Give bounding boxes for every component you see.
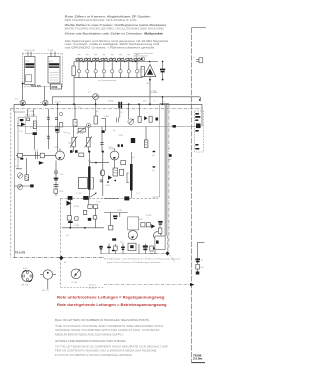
svg-text:C204: C204 (104, 116, 110, 118)
svg-text:mit GRUNDIG Univers.-/ Röhrenv: mit GRUNDIG Univers.-/ Röhrenvoltmeter g… (65, 45, 155, 49)
svg-text:2.0.8m: 2.0.8m (193, 357, 203, 361)
svg-text:Tr 201: Tr 201 (76, 192, 83, 195)
svg-text:Weiße Zahlen in roten Kreisen:: Weiße Zahlen in roten Kreisen: Oszillogr… (65, 23, 167, 27)
svg-text:E CON UN VOLTMETRO A VALVOLA U: E CON UN VOLTMETRO A VALVOLA UNIVERSALE … (55, 353, 132, 357)
svg-text:C247: C247 (33, 150, 39, 152)
svg-text:GRUNDIG WAVE VOLTMETER WITH 10: GRUNDIG WAVE VOLTMETER WITH 10M OHMS AT … (55, 328, 161, 332)
svg-text:R 261: R 261 (146, 215, 152, 217)
svg-text:Tr 101: Tr 101 (48, 49, 55, 52)
svg-text:TS-A 375: TS-A 375 (15, 251, 26, 254)
svg-text:MEDIUM BRIGHTNESS AND 220V MAI: MEDIUM BRIGHTNESS AND 220V MAINS SUPPLY (55, 333, 124, 337)
svg-text:zur Regelspannung: zur Regelspannung (98, 79, 117, 82)
svg-text:PER UN CONTRASTO MASSIMO UNA L: PER UN CONTRASTO MASSIMO UNA LUMINOSITÀ … (55, 348, 157, 352)
svg-text:A 300: A 300 (110, 148, 116, 151)
svg-text:Rote durchgehende Leitungen =: Rote durchgehende Leitungen = Betriebssp… (57, 302, 167, 307)
svg-text:TS-B 375: TS-B 375 (31, 85, 42, 88)
svg-text:C231: C231 (105, 185, 111, 187)
svg-text:2040: 2040 (52, 85, 58, 89)
svg-text:AF 178: AF 178 (22, 284, 30, 287)
svg-text:Rüste u.: Rüste u. (89, 284, 97, 287)
svg-text:R234: R234 (74, 206, 80, 208)
svg-text:C220: C220 (118, 135, 124, 137)
svg-text:TUTTE LE TENSIONI E LE CORRENT: TUTTE LE TENSIONI E LE CORRENTI SONO MIS… (55, 345, 168, 349)
svg-text:Anschlußwinkel: Anschlußwinkel (134, 54, 149, 57)
svg-text:Kleine rote Buchstaben oder Za: Kleine rote Buchstaben oder Zahlen in Dr… (65, 32, 164, 36)
svg-text:220V~: 220V~ (55, 102, 62, 104)
svg-text:Service: Service (89, 286, 97, 289)
svg-text:gegen Chassis Toleranzen ±10%: gegen Chassis Toleranzen ±10% Änderungen… (107, 261, 162, 264)
svg-text:Rote unterbrochene Leitungen =: Rote unterbrochene Leitungen = Regelspan… (57, 295, 165, 300)
svg-text:T201: T201 (54, 147, 60, 149)
svg-text:THE VOLTAGES VOLTAGE AND CURRE: THE VOLTAGES VOLTAGE AND CURRENTS ARE ME… (55, 324, 164, 328)
svg-text:WHITE FIGURES ENCIRCLED RED: O: WHITE FIGURES ENCIRCLED RED: OSCILLOGRAM… (65, 26, 164, 30)
svg-text:Nr 6 Widerstände in Ohm Kond: Nr 6 Widerstände in Ohm Kondensatoren in… (104, 258, 182, 261)
svg-text:R 302: R 302 (108, 101, 114, 103)
svg-text:C240: C240 (117, 210, 123, 212)
svg-text:BALL OR LETTERS OR NUMBERS IN: BALL OR LETTERS OR NUMBERS IN TRIANGLES:… (55, 318, 149, 322)
svg-text:Tu 302: Tu 302 (150, 91, 157, 93)
svg-text:BC 147: BC 147 (42, 290, 50, 292)
svg-text:R201 220k: R201 220k (26, 115, 37, 117)
svg-text:C236: C236 (74, 225, 80, 227)
svg-text:R 300: R 300 (72, 282, 78, 284)
svg-text:LETTERE E CIFRE REMARKED IN TR: LETTERE E CIFRE REMARKED IN TRIANGLES: P… (55, 339, 126, 343)
svg-text:12V: 12V (143, 101, 147, 103)
svg-text:Si101 2,5A: Si101 2,5A (25, 49, 36, 52)
svg-text:RED FIGURES ENCIRCLED: ADJUSTA: RED FIGURES ENCIRCLED: ADJUSTABLE IF-COI… (65, 18, 138, 22)
